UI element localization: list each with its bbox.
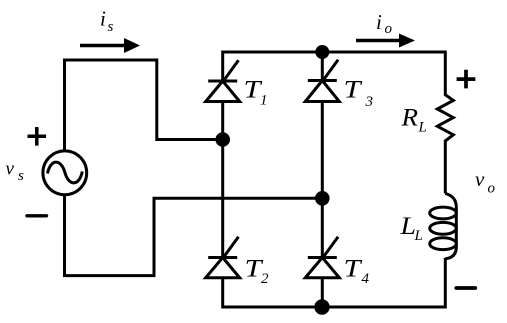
svg-text:L: L xyxy=(414,228,423,244)
svg-text:s: s xyxy=(108,19,114,35)
svg-text:L: L xyxy=(418,119,427,135)
svg-text:s: s xyxy=(18,168,24,184)
svg-text:2: 2 xyxy=(261,271,269,287)
svg-text:o: o xyxy=(488,181,496,197)
svg-text:v: v xyxy=(475,167,485,191)
svg-text:i: i xyxy=(376,10,382,34)
svg-text:o: o xyxy=(385,21,393,37)
svg-text:T: T xyxy=(344,77,364,104)
svg-text:v: v xyxy=(6,158,15,179)
svg-text:1: 1 xyxy=(260,92,268,108)
svg-text:4: 4 xyxy=(362,271,370,287)
svg-text:i: i xyxy=(100,6,106,30)
svg-text:T: T xyxy=(344,256,364,283)
svg-text:3: 3 xyxy=(365,94,374,110)
svg-text:L: L xyxy=(399,213,416,240)
svg-text:R: R xyxy=(400,105,418,132)
